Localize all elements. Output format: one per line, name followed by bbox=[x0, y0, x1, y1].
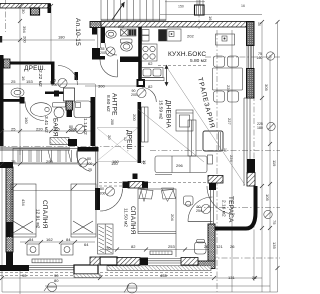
svg-text:435: 435 bbox=[160, 273, 167, 278]
bedroom1 north wall thin bbox=[0, 148, 70, 150]
svg-text:КУХН.БОКС: КУХН.БОКС bbox=[168, 51, 206, 58]
svg-text:25: 25 bbox=[11, 79, 16, 84]
basin in dresh bbox=[11, 88, 24, 97]
column above top wall bbox=[195, 5, 205, 15]
bath vestibule jamb bbox=[54, 91, 59, 97]
svg-text:20: 20 bbox=[107, 135, 112, 140]
dresh door arc bbox=[58, 66, 78, 86]
dim line h y242 beds bbox=[20, 241, 95, 243]
bedroom2 wardrobe bbox=[98, 224, 114, 254]
svg-text:105: 105 bbox=[265, 194, 270, 201]
svg-text:11.50 м2: 11.50 м2 bbox=[123, 208, 129, 227]
closet east wall black bbox=[91, 97, 96, 146]
bedroom2 east wall hatched bbox=[208, 224, 215, 261]
facade step pier white bbox=[74, 265, 98, 274]
svg-text:200: 200 bbox=[132, 114, 137, 121]
wc south wall bbox=[120, 57, 142, 63]
bedroom1 wardrobe bbox=[13, 149, 78, 164]
bedroom2 chair bbox=[195, 242, 207, 254]
dresh-bath wall bbox=[0, 99, 21, 102]
bedroom2-terrace window glazing bbox=[211, 190, 214, 224]
shaft upper box bbox=[64, 88, 75, 101]
svg-text:200: 200 bbox=[100, 51, 106, 55]
bedroom1 east wall thin bbox=[96, 151, 98, 188]
window circle right-living bbox=[267, 122, 275, 130]
axis dashdot h y258 right bbox=[210, 257, 280, 259]
svg-text:305: 305 bbox=[264, 84, 269, 91]
door circle bedroom1 bbox=[78, 158, 87, 167]
sofa side piece bbox=[188, 120, 196, 156]
svg-text:204: 204 bbox=[170, 214, 175, 221]
axis dashdot v x254 bbox=[253, 95, 255, 230]
door circle terrace bbox=[201, 204, 210, 213]
diagonal leader 1 bbox=[166, 66, 245, 185]
window circle terrace-right bbox=[264, 210, 272, 218]
svg-text:3.41 м2: 3.41 м2 bbox=[43, 116, 49, 133]
door circle wc bbox=[106, 47, 115, 56]
svg-text:135: 135 bbox=[272, 242, 277, 249]
svg-text:26: 26 bbox=[230, 244, 235, 249]
kitchen counter edge bbox=[141, 78, 164, 81]
v254 lower bbox=[253, 230, 255, 281]
antre mid pier black bbox=[75, 72, 79, 80]
right window glazing bbox=[244, 98, 250, 186]
svg-text:119: 119 bbox=[272, 160, 277, 167]
door circle closet114 bbox=[75, 124, 84, 133]
svg-text:340: 340 bbox=[279, 36, 280, 43]
bedroom1 east wall black part bbox=[95, 188, 100, 210]
living-bedroom2 wall hatched bbox=[128, 182, 144, 189]
tv cabinet living bbox=[142, 107, 149, 142]
svg-text:200: 200 bbox=[70, 127, 77, 132]
closet2 cross bbox=[97, 128, 138, 161]
wc boiler box bbox=[121, 29, 129, 36]
svg-text:253: 253 bbox=[168, 244, 175, 249]
bedroom2 door arc bbox=[100, 189, 123, 212]
bedroom1 door jamb bbox=[78, 147, 99, 152]
svg-text:8.60 м2: 8.60 м2 bbox=[105, 95, 111, 112]
svg-text:180: 180 bbox=[58, 35, 65, 40]
svg-text:84: 84 bbox=[66, 237, 71, 242]
bedroom1 south wall corner black bbox=[0, 265, 29, 271]
left edge bars bbox=[0, 36, 2, 43]
west wall hatched bbox=[6, 167, 13, 252]
washing machine closet bbox=[74, 101, 91, 118]
svg-text:1.14 м2: 1.14 м2 bbox=[82, 118, 88, 135]
dim line bottom h2 bbox=[45, 285, 270, 287]
sofa horizontal bbox=[155, 156, 207, 173]
grid line v x20 bbox=[19, 6, 21, 155]
svg-text:80: 80 bbox=[54, 278, 59, 283]
svg-text:298: 298 bbox=[279, 252, 280, 259]
svg-text:16: 16 bbox=[208, 16, 213, 21]
wc toilet bbox=[121, 39, 133, 43]
living-bedroom2 wall jambs bbox=[123, 182, 130, 189]
svg-text:25: 25 bbox=[11, 159, 16, 164]
svg-text:227: 227 bbox=[227, 118, 232, 125]
svg-text:200: 200 bbox=[110, 119, 114, 125]
svg-text:398: 398 bbox=[279, 88, 280, 95]
top main wall hatched bbox=[92, 22, 254, 28]
svg-text:ТЕРАСА: ТЕРАСА bbox=[227, 196, 234, 223]
bedroom1 window sill bbox=[29, 266, 74, 270]
kitchen wall pier box bbox=[137, 79, 146, 87]
bath toilet bbox=[53, 103, 66, 108]
bedroom2 south wall hatch left bbox=[117, 258, 140, 266]
svg-text:82: 82 bbox=[131, 244, 136, 249]
svg-text:62: 62 bbox=[148, 61, 153, 66]
armchair dining dark bbox=[203, 131, 223, 151]
dim line left v bbox=[1, 100, 3, 292]
svg-text:25: 25 bbox=[11, 127, 16, 132]
svg-text:160: 160 bbox=[112, 159, 119, 164]
svg-text:208: 208 bbox=[118, 25, 124, 29]
fridge black bbox=[159, 30, 167, 42]
kitchen west wall bbox=[138, 27, 142, 79]
svg-text:434: 434 bbox=[21, 199, 26, 206]
bedroom2-terrace lintel hatched bbox=[208, 176, 223, 184]
dim line h y131 bath bbox=[2, 130, 95, 132]
svg-text:26: 26 bbox=[204, 244, 209, 249]
grid line v x51 bbox=[50, 6, 52, 62]
closet2 south box bbox=[133, 174, 138, 180]
svg-text:25: 25 bbox=[88, 168, 92, 172]
bedroom2 desk chair bbox=[184, 196, 194, 205]
svg-text:220: 220 bbox=[36, 127, 43, 132]
terrace parapet curved bbox=[215, 186, 256, 229]
bedroom2-terrace jamb black bbox=[209, 183, 216, 190]
diagonal leader 2 bbox=[138, 109, 204, 162]
axis dashdot h y207 bbox=[196, 207, 280, 209]
hallway opening dashes bbox=[99, 183, 123, 187]
svg-text:70: 70 bbox=[106, 246, 111, 251]
terrace door jamb black bbox=[247, 159, 255, 173]
svg-text:12: 12 bbox=[142, 160, 147, 165]
closet2 wall black bar bbox=[138, 102, 142, 163]
svg-text:СПАЛНЯ: СПАЛНЯ bbox=[41, 200, 48, 229]
bedroom2 radiator bbox=[150, 251, 172, 255]
dresh west wall black bbox=[0, 55, 4, 146]
west wall top corner black bbox=[0, 162, 13, 168]
svg-text:65: 65 bbox=[50, 80, 55, 85]
wc door arc bbox=[105, 43, 117, 55]
dashed opening living-bed2 bbox=[148, 182, 212, 184]
svg-text:16: 16 bbox=[223, 148, 227, 152]
svg-text:5.80 м2: 5.80 м2 bbox=[190, 58, 207, 64]
svg-text:131: 131 bbox=[228, 275, 235, 280]
svg-text:2.16 м2: 2.16 м2 bbox=[221, 200, 227, 217]
terrace door jamb hatched bbox=[247, 173, 255, 187]
folding door triangle 1 bbox=[141, 188, 148, 202]
dashed line bottom outside 2 bbox=[0, 275, 212, 277]
door circle antre-dresh bbox=[58, 78, 67, 87]
svg-text:160: 160 bbox=[24, 117, 29, 124]
svg-text:200: 200 bbox=[23, 36, 28, 43]
section circle 2 bbox=[124, 283, 137, 293]
staircase bbox=[101, 0, 166, 21]
svg-text:80: 80 bbox=[87, 157, 91, 161]
section circle 1 bbox=[44, 283, 57, 292]
svg-text:30: 30 bbox=[21, 9, 26, 14]
svg-text:162: 162 bbox=[46, 237, 53, 242]
svg-text:БАНЯ: БАНЯ bbox=[52, 118, 59, 137]
svg-text:200: 200 bbox=[131, 93, 137, 97]
wc sink bbox=[106, 30, 116, 38]
bed2 bbox=[71, 184, 96, 237]
dim line h y164 bedroom1 bbox=[2, 163, 95, 165]
dresh-bath jamb bbox=[20, 97, 25, 104]
entry door arc bbox=[100, 60, 118, 78]
svg-text:90: 90 bbox=[22, 273, 27, 278]
svg-text:16: 16 bbox=[21, 76, 26, 81]
dim line h y247 bedroom2 bbox=[100, 249, 214, 251]
svg-text:ДНЕВНА: ДНЕВНА bbox=[165, 100, 172, 128]
dining chairs bbox=[214, 56, 225, 67]
svg-text:12.91 м2: 12.91 м2 bbox=[35, 209, 41, 229]
bedroom2 south wall right hatch bbox=[181, 258, 198, 266]
bedroom2 south pier hatch bbox=[90, 257, 100, 265]
svg-text:254: 254 bbox=[196, 209, 202, 213]
right wall lower block bbox=[247, 69, 255, 99]
kitchen door arc bbox=[142, 88, 157, 103]
armchair living bbox=[176, 110, 193, 131]
wc west wall black bbox=[101, 27, 105, 43]
bedroom2 south-east corner hatched bbox=[198, 261, 215, 269]
svg-text:84: 84 bbox=[29, 237, 34, 242]
svg-text:16: 16 bbox=[241, 4, 245, 8]
bath door arc bbox=[25, 102, 44, 121]
bedroom2 window sill bbox=[148, 259, 181, 264]
shaft box below party wall bbox=[31, 8, 40, 15]
axis dashdot v x217 bbox=[216, 30, 218, 292]
bedroom2 south jamb black bbox=[140, 258, 148, 266]
bedroom2 bed bbox=[138, 189, 176, 234]
svg-text:180: 180 bbox=[257, 126, 263, 130]
bath south sill hatch bbox=[50, 138, 69, 145]
svg-text:26: 26 bbox=[252, 275, 257, 280]
door circle kitchen bbox=[137, 88, 146, 97]
kitchen depth dim bar bbox=[165, 65, 168, 85]
dresh east wall bbox=[51, 62, 55, 85]
party wall top-left hatched bbox=[0, 4, 51, 14]
dim line right v1 bbox=[261, 22, 263, 292]
grid line h y40 left bbox=[0, 39, 95, 41]
bathtub bbox=[31, 103, 52, 117]
vent shaft crosshatch bbox=[66, 101, 73, 110]
svg-text:75: 75 bbox=[272, 220, 277, 225]
stair arrow bbox=[112, 2, 125, 20]
axis dashdot h y146 bbox=[0, 146, 145, 148]
closet east dim line bbox=[95, 84, 97, 151]
dim line bottom h1 bbox=[2, 277, 262, 279]
sofa end table bbox=[208, 155, 213, 164]
svg-text:290: 290 bbox=[46, 159, 53, 164]
bath vestibule wall bbox=[45, 92, 66, 95]
svg-text:200: 200 bbox=[100, 192, 106, 196]
bed head line bbox=[13, 190, 95, 192]
right wall upper block bbox=[247, 22, 255, 46]
bath-closet divider black bbox=[67, 101, 73, 117]
slab edge line above top wall bbox=[160, 14, 262, 16]
west wall bottom black bbox=[6, 252, 13, 266]
svg-text:296: 296 bbox=[176, 163, 183, 168]
svg-text:Ап.10-15: Ап.10-15 bbox=[74, 18, 81, 46]
svg-text:121: 121 bbox=[216, 244, 223, 249]
bedroom2 south pier white bbox=[100, 257, 117, 265]
bedroom1 radiator bbox=[32, 259, 62, 263]
wc cabinet bbox=[129, 29, 137, 36]
dashed open-plan kitchen bbox=[158, 64, 208, 66]
svg-text:150: 150 bbox=[178, 5, 184, 9]
axis dashdot h y57 bbox=[205, 56, 280, 58]
dim line right v2 bbox=[269, 55, 271, 292]
dining cabinet bbox=[216, 34, 235, 45]
dresh west hatch box bbox=[4, 59, 11, 68]
svg-text:80: 80 bbox=[100, 187, 104, 191]
nightstand1 bbox=[27, 244, 39, 255]
nightstand2 bbox=[61, 244, 73, 255]
dim line right v3 bbox=[277, 22, 279, 292]
svg-text:224: 224 bbox=[226, 85, 231, 92]
dim line bottom h3 bbox=[2, 291, 278, 293]
svg-text:82: 82 bbox=[148, 84, 153, 89]
svg-text:СПАЛНЯ: СПАЛНЯ bbox=[129, 206, 136, 235]
bath south jamb black bbox=[68, 139, 77, 146]
svg-text:300: 300 bbox=[98, 84, 105, 89]
dashed line bottom outside 1 bbox=[0, 272, 212, 274]
folding door triangle 2 bbox=[162, 188, 175, 202]
grid line v x232 bbox=[231, 30, 233, 292]
svg-text:200: 200 bbox=[87, 162, 93, 166]
svg-text:15.59 м2: 15.59 м2 bbox=[158, 100, 164, 120]
grid line h y86 bbox=[85, 85, 140, 87]
bedroom1 door arc bbox=[77, 151, 91, 172]
dresh north wall bbox=[10, 62, 54, 65]
bed1 bbox=[11, 184, 36, 237]
svg-text:160: 160 bbox=[257, 56, 263, 60]
kitchen stove bbox=[141, 44, 157, 61]
outside ledge hatch strip bbox=[107, 266, 211, 271]
svg-text:394: 394 bbox=[22, 26, 27, 33]
window circle right-kitchen bbox=[266, 52, 274, 60]
top wall left jamb bbox=[90, 22, 101, 28]
terrace door arc into bedroom bbox=[188, 197, 213, 222]
wc west corner L bbox=[92, 48, 105, 60]
svg-text:224: 224 bbox=[229, 155, 234, 162]
axis dashdot v x199 bbox=[198, 0, 200, 30]
dining table bbox=[213, 68, 243, 90]
right wall window bbox=[247, 46, 253, 69]
kitchen sink bbox=[141, 68, 163, 78]
axis dashdot v x5.5 bbox=[5, 0, 7, 32]
door circle bedroom2 bbox=[105, 187, 114, 196]
svg-text:64: 64 bbox=[84, 242, 89, 247]
svg-text:АНТРЕ: АНТРЕ bbox=[111, 93, 118, 116]
kitchen upper boxes bbox=[142, 30, 149, 36]
facade step hatch below bbox=[74, 274, 100, 278]
svg-text:ДРЕШ.: ДРЕШ. bbox=[126, 130, 133, 152]
terrace door arc bbox=[207, 186, 235, 214]
dim line h y84 dresh bbox=[2, 83, 95, 85]
kitchen cabinet top bbox=[167, 29, 181, 41]
svg-text:202: 202 bbox=[187, 34, 194, 39]
svg-text:2.22 м2: 2.22 м2 bbox=[37, 70, 43, 87]
svg-text:153: 153 bbox=[26, 79, 33, 84]
